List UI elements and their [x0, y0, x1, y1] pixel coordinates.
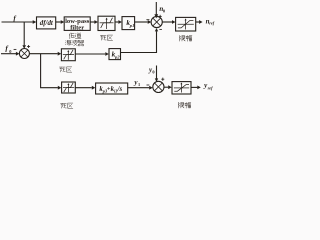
svg-text:p1: p1 [129, 23, 135, 28]
svg-text:/s: /s [117, 86, 123, 93]
svg-text:df/dt: df/dt [40, 20, 54, 27]
svg-text:ref: ref [208, 85, 214, 90]
svg-text:ref: ref [209, 21, 215, 26]
svg-text:filter: filter [70, 24, 84, 31]
svg-text:p2: p2 [114, 55, 120, 60]
svg-text:1: 1 [138, 82, 140, 87]
